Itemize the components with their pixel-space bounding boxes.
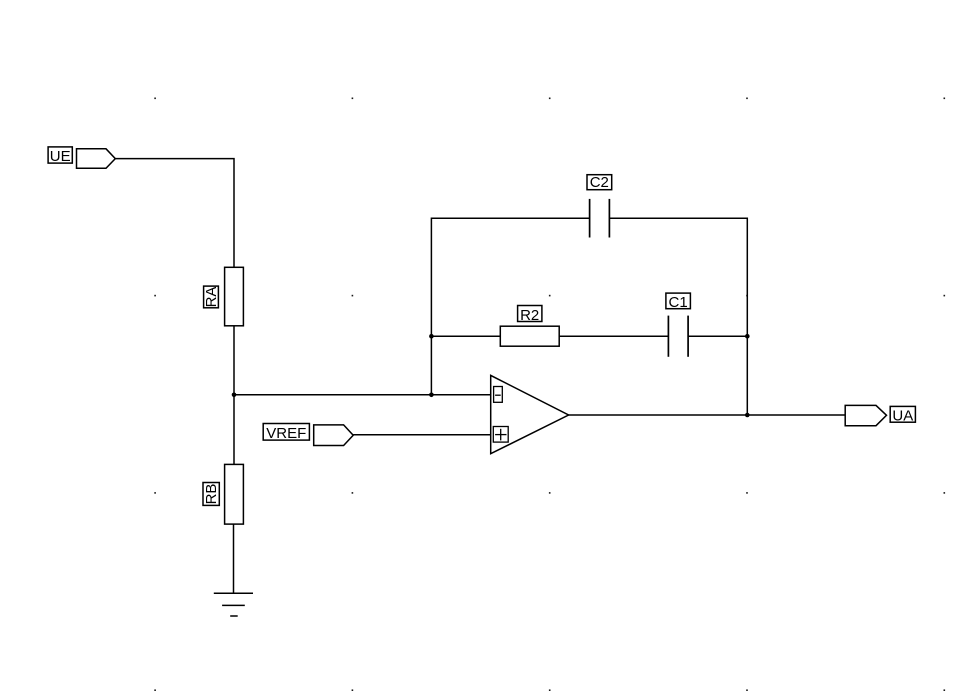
svg-text:VREF: VREF [266, 425, 306, 442]
svg-text:C1: C1 [669, 294, 688, 311]
svg-text:UA: UA [892, 408, 913, 425]
svg-text:RB: RB [203, 484, 220, 505]
svg-text:C2: C2 [590, 174, 609, 191]
svg-text:R2: R2 [520, 307, 539, 324]
svg-text:RA: RA [203, 287, 220, 308]
svg-text:UE: UE [50, 148, 71, 165]
